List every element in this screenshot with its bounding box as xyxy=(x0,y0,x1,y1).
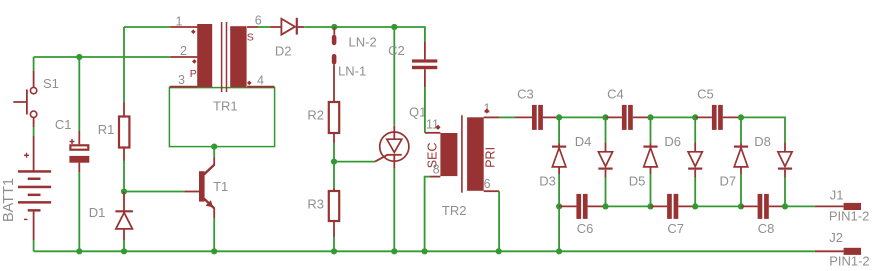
pin 1 label TR1 xyxy=(176,15,196,35)
capacitor C6 xyxy=(559,194,605,236)
capacitor C3 xyxy=(517,87,543,130)
node bottom bus C1 xyxy=(76,248,82,254)
svg-text:D4: D4 xyxy=(575,134,592,149)
svg-text:3: 3 xyxy=(178,73,185,87)
wire TR2 pin8 to bottom bus xyxy=(425,177,441,252)
node LN-2 top junction xyxy=(331,24,337,30)
svg-text:D1: D1 xyxy=(89,205,106,220)
wire J1 lead xyxy=(785,205,844,207)
node bottom bus TR2 pin8 xyxy=(422,248,428,254)
wire gate wire to Q1 xyxy=(334,161,375,163)
svg-text:TR1: TR1 xyxy=(213,99,238,114)
connector J2 xyxy=(829,230,869,269)
svg-text:PIN1-2: PIN1-2 xyxy=(829,254,869,269)
capacitor C4 xyxy=(606,87,651,130)
wire top row D3-D4 xyxy=(559,116,605,118)
svg-text:D5: D5 xyxy=(629,174,646,189)
svg-text:TR2: TR2 xyxy=(442,203,467,218)
wire TR1 pin6 to D2 xyxy=(247,26,281,28)
wire battery bottom lead to bottom bus xyxy=(33,212,35,252)
svg-text:6: 6 xyxy=(484,177,491,191)
svg-text:Q1: Q1 xyxy=(409,104,426,119)
wire multiplier ground drop xyxy=(558,206,560,251)
svg-text:C6: C6 xyxy=(577,221,594,236)
svg-text:T1: T1 xyxy=(213,179,228,194)
wire bottom row D6-D7 xyxy=(695,205,741,207)
node bottom bus TR2 pin6 xyxy=(496,248,502,254)
wire battery top lead xyxy=(33,136,35,171)
svg-text:J2: J2 xyxy=(829,230,843,245)
svg-text:D7: D7 xyxy=(720,174,737,189)
capacitor C7 xyxy=(651,194,696,236)
wire bottom row D4-D5 xyxy=(606,205,651,207)
svg-text:C5: C5 xyxy=(697,87,714,102)
svg-text:C7: C7 xyxy=(667,221,684,236)
svg-text:C3: C3 xyxy=(517,87,534,102)
svg-text:6: 6 xyxy=(255,14,262,28)
node bottom row D5 xyxy=(647,203,653,209)
svg-text:8: 8 xyxy=(433,162,440,176)
node bottom row D3 xyxy=(556,203,562,209)
svg-text:C8: C8 xyxy=(758,221,775,236)
resistor R2 xyxy=(307,102,339,133)
wire C2 bottom to TR2 pin11 xyxy=(425,69,441,133)
svg-text:11: 11 xyxy=(426,118,439,132)
wire T1 base xyxy=(124,191,199,193)
diode D7 xyxy=(720,117,749,206)
transformer TR2 xyxy=(426,115,498,218)
wire C1 column xyxy=(78,57,80,251)
svg-text:D6: D6 xyxy=(664,134,681,149)
wire TR2 pin1 to C3 xyxy=(484,116,532,118)
wire D2 to LN-2 junction xyxy=(297,26,335,28)
node bottom row D8 / J1 xyxy=(782,203,788,209)
wire T1 collector lead xyxy=(213,147,215,166)
node Q1 anode junction xyxy=(391,24,397,30)
node bottom bus multiplier ground xyxy=(556,248,562,254)
node top row D3 xyxy=(556,114,562,120)
node bottom bus T1 emitter xyxy=(211,248,217,254)
pin 1 label TR2 xyxy=(484,102,491,116)
pin 2 label TR1 xyxy=(180,44,197,64)
svg-text:P: P xyxy=(190,68,197,80)
node top row D6 xyxy=(692,114,698,120)
node top row D4 xyxy=(602,114,608,120)
svg-text:1: 1 xyxy=(484,102,491,116)
node bottom row D4 xyxy=(602,203,608,209)
wire top row D7 to D8 corner xyxy=(741,117,785,142)
thyristor Q1 xyxy=(375,104,426,168)
wire R1 column top xyxy=(123,27,125,117)
wire Q1 cathode to bottom bus xyxy=(393,168,395,251)
wire J2 lead xyxy=(815,250,844,252)
wire R1 to junction xyxy=(123,148,125,192)
wire D1 top lead xyxy=(123,192,125,212)
wire Q1 anode column xyxy=(393,27,395,132)
bottom bus xyxy=(34,250,815,252)
diode D3 xyxy=(539,117,566,206)
wire top bus y=27 from R1 column to TR1 pin1 xyxy=(124,26,170,28)
svg-text:R3: R3 xyxy=(307,197,324,212)
svg-text:C2: C2 xyxy=(388,43,405,58)
pin 11 label TR2 xyxy=(426,118,441,132)
svg-text:2: 2 xyxy=(180,44,187,58)
node bottom bus Q1 cathode xyxy=(391,248,397,254)
node top row D5 xyxy=(647,114,653,120)
resistor R3 xyxy=(307,191,339,221)
node C1 top junction xyxy=(76,54,82,60)
switch S1 xyxy=(13,76,59,118)
transistor T1 xyxy=(199,165,228,209)
svg-text:LN-2: LN-2 xyxy=(349,35,377,50)
wire D1 bottom lead xyxy=(123,229,125,251)
wire LN-1 to R2 xyxy=(333,64,335,102)
wire junction to C2 xyxy=(394,27,425,59)
svg-text:S: S xyxy=(247,32,254,44)
wire junction to R3 xyxy=(333,162,335,191)
pin 6 label TR2 xyxy=(484,177,491,191)
diode D4 xyxy=(575,117,613,206)
node bottom bus R3 xyxy=(331,248,337,254)
resistor R1 xyxy=(98,117,130,148)
svg-text:LN-1: LN-1 xyxy=(338,64,366,79)
svg-text:J1: J1 xyxy=(830,188,844,203)
node R1/D1/T1-base junction xyxy=(121,188,127,194)
diode D5 xyxy=(629,117,658,206)
pin 8 label TR2 xyxy=(433,162,440,176)
wire mid bus y=57 from switch corner to TR1 pin2 xyxy=(34,56,171,58)
capacitor C5 xyxy=(695,87,741,130)
battery BATT1 xyxy=(1,153,51,222)
wire R2 to gate junction xyxy=(333,133,335,162)
svg-text:PIN1-2: PIN1-2 xyxy=(829,209,869,224)
svg-text:4: 4 xyxy=(257,74,264,88)
transformer TR1 windings xyxy=(170,22,275,92)
svg-text:1: 1 xyxy=(176,15,183,29)
wire T1 emitter lead xyxy=(213,208,215,251)
diode D1 xyxy=(89,205,133,229)
node bottom row D7 xyxy=(738,203,744,209)
svg-text:D8: D8 xyxy=(754,134,771,149)
wire S1 column xyxy=(33,57,35,136)
wire C3 to D3 junction xyxy=(543,116,559,118)
capacitor C1 xyxy=(55,117,89,163)
svg-text:C4: C4 xyxy=(607,87,624,102)
svg-text:S1: S1 xyxy=(43,76,59,91)
diode D8 xyxy=(754,134,792,207)
node TR1 box bottom junction xyxy=(211,144,217,150)
svg-text:C1: C1 xyxy=(55,117,72,132)
pin 3 label TR1 xyxy=(178,73,185,87)
wire top row D5-D6 xyxy=(651,116,696,118)
inductor LN-2 xyxy=(332,27,377,50)
diode D6 xyxy=(664,117,702,206)
svg-text:R1: R1 xyxy=(98,122,115,137)
node bottom row D6 xyxy=(692,203,698,209)
wire junction to C2 corner xyxy=(334,26,394,28)
svg-text:PRI: PRI xyxy=(483,147,497,168)
svg-text:R2: R2 xyxy=(307,108,324,123)
diode D2 xyxy=(275,18,297,59)
inductor LN-1 xyxy=(332,54,366,79)
wire TR2 pin6 to bottom bus xyxy=(484,191,499,251)
svg-text:D3: D3 xyxy=(539,174,556,189)
node R2/R3/gate junction xyxy=(331,159,337,165)
connector J1 xyxy=(829,188,869,224)
transformer TR1 box xyxy=(169,88,274,147)
pin 4 label TR1 xyxy=(247,74,264,88)
pin 6 label TR1 xyxy=(255,14,262,28)
capacitor C2 xyxy=(388,43,437,69)
node top row D7 xyxy=(738,114,744,120)
svg-text:D2: D2 xyxy=(275,43,292,58)
wire R3 bottom lead xyxy=(333,221,335,251)
node bottom bus D1 xyxy=(121,248,127,254)
capacitor C8 xyxy=(741,194,785,236)
svg-text:BATT1: BATT1 xyxy=(1,178,17,222)
